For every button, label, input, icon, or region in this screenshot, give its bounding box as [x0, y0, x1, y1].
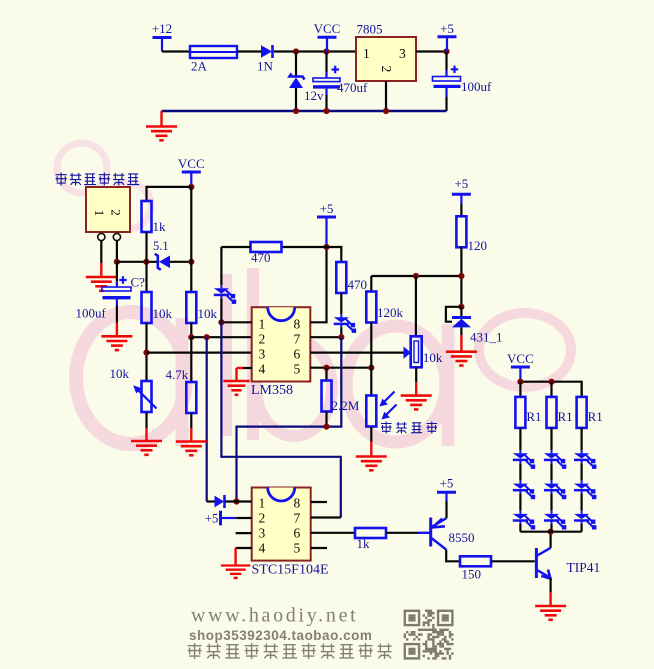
op-amp U1 LM358 body — [252, 307, 311, 381]
LED matrix D5 — [513, 480, 535, 510]
ground (pot right) — [401, 367, 432, 409]
potentiometer 10k (left) — [110, 337, 192, 412]
wire zener to VCC column — [170, 261, 191, 263]
node rail col2 — [548, 379, 554, 385]
power symbol VCC (sensor) — [178, 156, 205, 187]
QR code — [404, 610, 454, 660]
node pin1/LED junction — [218, 319, 224, 325]
svg-text:6: 6 — [294, 526, 301, 541]
wire LM358 pin8 to +5 — [310, 247, 326, 322]
node: junction at zener 12v — [293, 48, 299, 54]
power symbol +5 (top) — [438, 21, 457, 52]
LED matrix D8 — [544, 480, 566, 510]
zener diode 12v — [289, 52, 324, 112]
resistor 2.2M — [322, 368, 360, 427]
resistor 10k (left) — [142, 292, 173, 323]
svg-text:3: 3 — [259, 526, 266, 541]
svg-text:470: 470 — [251, 250, 271, 265]
node pin2 junction — [188, 334, 194, 340]
svg-text:12v: 12v — [304, 88, 324, 103]
node pot2 top junction — [413, 273, 419, 279]
power symbol +5 (8550) — [437, 476, 456, 519]
power symbol VCC (top) — [314, 21, 341, 52]
wire +5 rail to 120k — [371, 276, 461, 292]
svg-text:7: 7 — [294, 511, 301, 526]
node 120/rail junction — [458, 273, 464, 279]
LED matrix D4 — [513, 450, 535, 480]
ground (power rail) — [146, 111, 177, 140]
svg-text:+5: +5 — [440, 476, 454, 491]
wire 7805 pin3 to +5 — [416, 50, 447, 52]
wire feedback column down — [206, 337, 208, 501]
power symbol +5 (mid) — [317, 201, 336, 247]
svg-text:+5: +5 — [320, 201, 334, 216]
svg-text:4.7k: 4.7k — [166, 367, 189, 382]
wire 10k-left bottom to pin3 node — [145, 323, 147, 381]
LED D2 (mid) — [334, 314, 356, 337]
ground (module pin1) — [86, 263, 117, 291]
resistor 120 — [456, 216, 487, 306]
LED matrix D10 — [574, 450, 596, 480]
node TIP41 collector junction — [548, 529, 554, 535]
node pin2/feedback junction — [204, 334, 210, 340]
resistor R1 (col2) — [547, 397, 573, 428]
node 2.2M junction — [323, 424, 329, 430]
resistor 10k (right) — [186, 292, 217, 323]
capacitor 470uf — [313, 52, 368, 112]
resistor 150 — [460, 556, 535, 581]
shunt regulator 431_1 — [446, 307, 503, 345]
svg-text:1: 1 — [259, 495, 266, 510]
mcu U2 STC15F104E body — [252, 488, 311, 561]
wire col1 top — [519, 382, 521, 397]
svg-text:+5: +5 — [454, 176, 468, 191]
label: photoresistor (Chinese) — [381, 422, 437, 434]
svg-text:5: 5 — [294, 361, 301, 376]
svg-text:1k: 1k — [357, 536, 371, 551]
node: rail junction zener — [293, 108, 299, 114]
resistor R1 (col3) — [577, 397, 603, 428]
LED matrix D11 — [574, 480, 596, 510]
wire col1 R1 to LEDs — [519, 428, 521, 450]
svg-text:+5: +5 — [440, 21, 454, 36]
ground (STC pin4) — [221, 548, 252, 578]
svg-text:shop35392304.taobao.com: shop35392304.taobao.com — [189, 628, 372, 643]
node VCC junction — [188, 184, 194, 190]
svg-text:10k: 10k — [423, 350, 443, 365]
wire TIP41 collector — [549, 532, 551, 548]
ground (431) — [446, 327, 477, 365]
ground (4.7k) — [176, 413, 207, 455]
resistor 1k (horizontal) — [355, 528, 418, 551]
node: junction at VCC/470uf — [323, 48, 329, 54]
label STC15F104E — [252, 563, 329, 578]
transistor Q1 8550 (PNP) — [418, 518, 475, 550]
resistor 470 (vertical) — [327, 247, 368, 314]
LED D1 (left) — [214, 247, 236, 322]
net +12 power port — [152, 21, 172, 52]
wire node A right — [117, 261, 157, 263]
svg-text:1: 1 — [363, 46, 370, 61]
svg-text:6: 6 — [294, 346, 301, 361]
decorative watermark — [76, 268, 571, 446]
node +5 junction — [323, 244, 329, 250]
node pin5/2.2M junction — [323, 365, 329, 371]
node: rail junction 470uf — [323, 108, 329, 114]
svg-text:+5: +5 — [205, 510, 219, 525]
zener diode 5.1 — [153, 239, 170, 270]
wire matrix top rail — [520, 382, 581, 397]
LED matrix D12 — [574, 511, 596, 532]
wire STC pin7 stub — [311, 516, 341, 518]
diode D3 at STC pin1 — [207, 495, 252, 508]
wire VCC column down — [190, 187, 192, 292]
resistor 4.7k — [166, 367, 197, 413]
wire +12 to fuse — [162, 50, 190, 52]
ground (photoresistor) — [356, 427, 387, 470]
svg-text:4: 4 — [259, 541, 266, 556]
wire STC pin3 stub — [236, 532, 252, 534]
svg-text:10k: 10k — [153, 306, 173, 321]
resistor R1 (col1) — [515, 397, 541, 428]
wire col3 top — [580, 382, 582, 397]
wire LM358 pin3 — [147, 352, 252, 354]
svg-text:R1: R1 — [588, 409, 603, 424]
svg-text:R1: R1 — [526, 409, 541, 424]
wire col3 R1 to LEDs — [580, 428, 582, 450]
svg-text:120k: 120k — [377, 305, 404, 320]
resistor 470 (horizontal) — [221, 242, 326, 265]
svg-text:2A: 2A — [191, 59, 208, 74]
capacitor C? 100uf — [76, 262, 146, 323]
power symbol +5 (120) — [452, 176, 471, 216]
svg-text:TIP41: TIP41 — [567, 560, 601, 575]
svg-text:VCC: VCC — [314, 21, 341, 36]
svg-text:2: 2 — [259, 511, 266, 526]
svg-text:2: 2 — [109, 209, 124, 216]
wire LED node down and across to STC pin7 — [221, 322, 340, 517]
svg-text:7805: 7805 — [357, 22, 383, 37]
svg-text:470uf: 470uf — [337, 80, 368, 95]
wire STC pin5 stub — [311, 547, 327, 549]
wire col2 R1 to LEDs — [550, 428, 552, 450]
node rail col1 — [517, 379, 523, 385]
svg-text:2: 2 — [379, 66, 394, 73]
node junction VCC column — [188, 259, 194, 265]
svg-text:2: 2 — [259, 331, 266, 346]
node pin5/120k junction — [368, 365, 374, 371]
resistor 1k — [142, 201, 167, 234]
transistor Q2 TIP41 (NPN) — [536, 548, 600, 579]
wire bottom power rail — [162, 110, 447, 112]
photoresistor (LDR) — [366, 392, 396, 427]
svg-text:470: 470 — [348, 277, 368, 292]
svg-text:120: 120 — [468, 238, 488, 253]
svg-text:VCC: VCC — [507, 351, 534, 366]
wire fuse to diode — [237, 50, 261, 52]
svg-text:100uf: 100uf — [76, 306, 107, 321]
wire LM358 pin2 — [191, 336, 251, 338]
svg-text:VCC: VCC — [178, 156, 205, 171]
wire STC pin8 stub — [311, 501, 327, 503]
svg-text:5.1: 5.1 — [153, 239, 169, 253]
svg-text:R1: R1 — [558, 409, 573, 424]
node pin3 junction — [143, 350, 149, 356]
ground (pot left) — [131, 413, 162, 455]
ground (C? cap) — [101, 323, 132, 351]
LED matrix D6 — [513, 511, 535, 532]
svg-text:10k: 10k — [110, 366, 130, 381]
wire LM358 pin1 — [221, 321, 251, 323]
wire LM358 pin5 — [310, 367, 371, 369]
wire LM358 pin7 — [310, 336, 341, 338]
footer Chinese line — [188, 643, 392, 659]
wire STC pin6 to 1k — [311, 532, 355, 534]
wire diode to 7805 pin1 — [274, 50, 356, 52]
footer site text — [189, 605, 372, 644]
node: junction at +5/100uf — [443, 48, 449, 54]
svg-text:1k: 1k — [153, 219, 167, 234]
power symbol VCC (LED matrix) — [507, 351, 534, 382]
wire 10k-right bottom to pin2 node — [190, 323, 192, 337]
wire 7805 pin2 to rail — [385, 81, 387, 111]
svg-text:3: 3 — [399, 46, 406, 61]
potentiometer 10k (right) — [404, 276, 443, 367]
wire 8550 collector to 150 — [446, 550, 460, 562]
fuse 2A — [190, 46, 237, 74]
node STC pin1 junction — [233, 498, 239, 504]
node: rail junction 7805 pin2 — [383, 108, 389, 114]
diode 1N — [257, 45, 274, 74]
svg-text:431_1: 431_1 — [470, 330, 503, 345]
svg-text:1N: 1N — [257, 59, 274, 74]
LED matrix D7 — [544, 450, 566, 480]
svg-text:4: 4 — [259, 361, 266, 376]
wire pin1 down — [100, 241, 102, 263]
svg-text:7: 7 — [294, 331, 301, 346]
ground (LM358 pin4) — [223, 368, 251, 395]
wire LM358 pin6 to pot wiper — [310, 352, 403, 354]
svg-text:LM358: LM358 — [251, 383, 293, 398]
wire VCC to 1k — [147, 187, 192, 201]
resistor 120k — [366, 292, 403, 368]
power symbol +5 (STC pin2) — [205, 510, 252, 525]
svg-text:C?: C? — [131, 275, 146, 290]
svg-text:1: 1 — [92, 210, 107, 217]
svg-text:STC15F104E: STC15F104E — [252, 563, 329, 578]
svg-text:www.haodiy.net: www.haodiy.net — [191, 605, 358, 627]
svg-text:100uf: 100uf — [461, 79, 492, 94]
wire 120k node to photoresistor — [370, 368, 372, 396]
wire matrix bottom rail — [520, 531, 581, 533]
label: PIR sensor module (Chinese) — [56, 173, 140, 186]
wire col2 top — [550, 382, 552, 397]
node 431 junction — [458, 304, 464, 310]
svg-text:8: 8 — [294, 495, 301, 510]
wire pin2 down to node — [116, 241, 118, 262]
wire 1k bottom to node — [145, 232, 147, 292]
svg-text:1: 1 — [259, 316, 266, 331]
wire pin7 net routing to STC pin1 — [237, 337, 342, 501]
regulator 7805 — [356, 22, 416, 82]
svg-text:150: 150 — [462, 567, 482, 582]
node A junction — [114, 259, 120, 265]
label LM358 — [251, 383, 293, 398]
svg-text:3: 3 — [259, 346, 266, 361]
svg-text:5: 5 — [294, 541, 301, 556]
connector J1 PIR module body — [86, 187, 130, 232]
LED matrix D9 — [544, 511, 566, 532]
ground (TIP41 emitter) — [535, 578, 566, 620]
svg-text:8550: 8550 — [449, 530, 475, 545]
pin 1 terminal circle — [98, 233, 105, 240]
svg-text:2.2M: 2.2M — [332, 398, 360, 413]
svg-text:10k: 10k — [198, 306, 218, 321]
node junction 1k/10k — [143, 259, 149, 265]
node pin7/LED2 junction — [338, 334, 344, 340]
svg-text:+12: +12 — [152, 21, 172, 36]
svg-text:8: 8 — [294, 316, 301, 331]
capacitor 100uf (top right) — [433, 52, 493, 112]
pin 2 terminal circle — [113, 233, 120, 240]
